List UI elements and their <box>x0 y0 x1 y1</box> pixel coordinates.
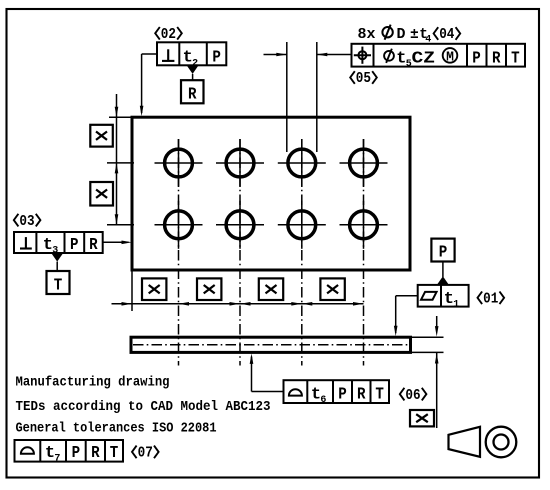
svg-text:T: T <box>511 50 520 69</box>
svg-text:Manufacturing drawing: Manufacturing drawing <box>16 375 170 391</box>
svg-text:R: R <box>188 85 197 104</box>
svg-text:R: R <box>357 386 366 405</box>
svg-text:R: R <box>91 444 100 463</box>
svg-text:6: 6 <box>320 395 326 406</box>
svg-text:General tolerances ISO 22081: General tolerances ISO 22081 <box>16 421 217 437</box>
svg-text:R: R <box>89 236 98 255</box>
svg-text:P: P <box>472 50 481 69</box>
svg-text:±: ± <box>410 27 419 43</box>
svg-text:M: M <box>446 49 454 65</box>
svg-text:1: 1 <box>453 299 459 310</box>
svg-text:01: 01 <box>483 292 498 308</box>
svg-text:TEDs according to CAD Model AB: TEDs according to CAD Model ABC123 <box>16 399 271 415</box>
svg-text:7: 7 <box>54 453 60 464</box>
svg-text:D: D <box>397 27 406 43</box>
svg-text:02: 02 <box>161 27 176 43</box>
svg-text:06: 06 <box>405 388 420 404</box>
svg-text:T: T <box>54 276 63 295</box>
svg-text:04: 04 <box>439 27 454 43</box>
svg-text:CZ: CZ <box>412 50 436 69</box>
svg-text:07: 07 <box>138 446 153 462</box>
svg-text:P: P <box>72 444 81 463</box>
svg-text:T: T <box>110 444 119 463</box>
svg-text:R: R <box>492 50 501 69</box>
svg-text:P: P <box>70 236 79 255</box>
svg-text:03: 03 <box>19 214 34 230</box>
svg-text:T: T <box>375 386 384 405</box>
svg-text:P: P <box>439 243 448 262</box>
svg-text:05: 05 <box>356 71 371 87</box>
svg-text:8x: 8x <box>358 27 376 43</box>
svg-text:P: P <box>338 386 347 405</box>
svg-text:P: P <box>212 49 221 68</box>
